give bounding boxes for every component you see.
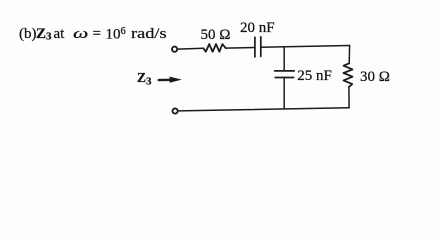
value label 20 nF: [240, 21, 275, 36]
capacitor C2 25 nF: [275, 71, 295, 78]
wire top right: [261, 46, 350, 48]
wire bottom: [178, 108, 349, 111]
node junction branch wire upper: [283, 47, 285, 70]
terminal bottom-left: [173, 108, 178, 113]
wire top-left lead: [178, 47, 204, 50]
value label 30 ohm: [360, 70, 390, 85]
wire branch lower: [283, 78, 285, 109]
terminal top-left: [172, 47, 177, 52]
caption text: (b) Z3 at omega = 10^6 rad/s: [19, 27, 37, 42]
value label 50 ohm: [201, 28, 231, 43]
resistor R1 50 ohm: [203, 44, 225, 52]
wire top middle: [226, 47, 255, 50]
resistor R2 30 ohm: [344, 63, 353, 87]
value label 25 nF: [297, 69, 332, 84]
capacitor C1 20 nF: [255, 37, 261, 57]
label Z3 (impedance arrow label): [137, 71, 152, 88]
wire right lower: [348, 87, 350, 108]
wire right upper: [348, 46, 350, 64]
impedance arrow: [159, 77, 182, 83]
